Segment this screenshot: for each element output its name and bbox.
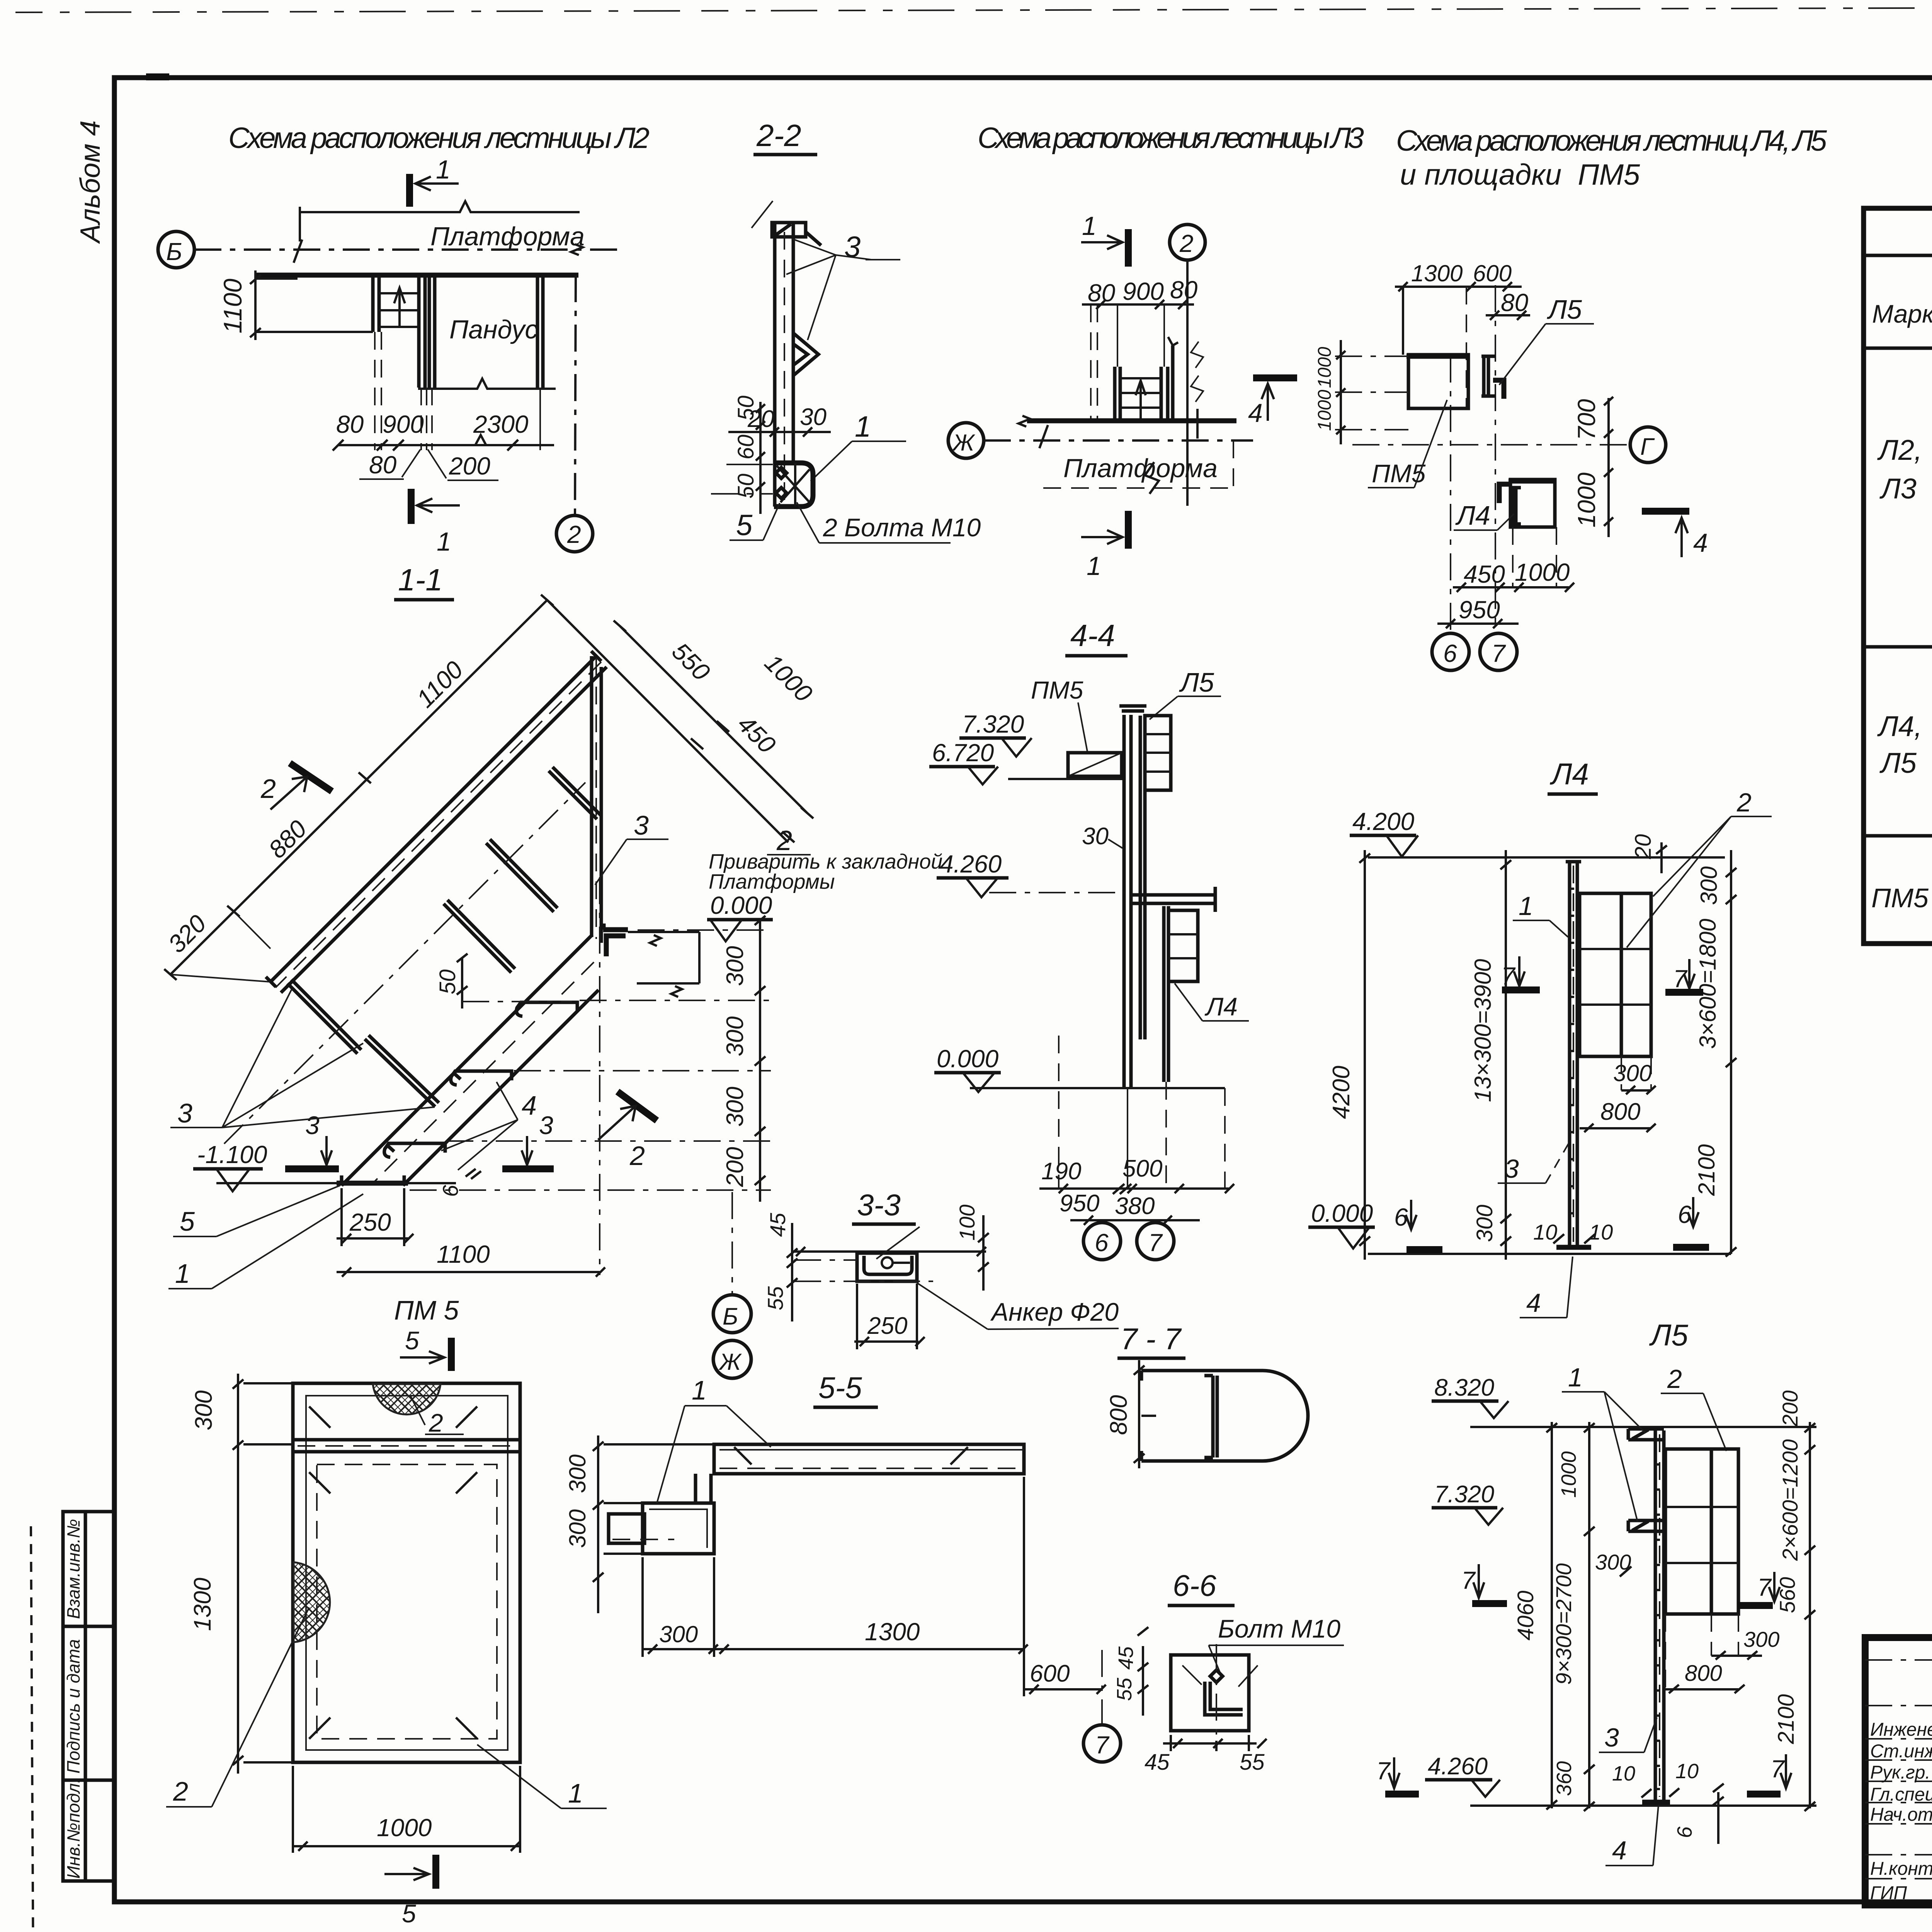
top extension line	[791, 1247, 986, 1256]
top level line	[1368, 856, 1725, 859]
svg-text:4: 4	[1693, 528, 1708, 558]
svg-text:Платформа: Платформа	[430, 222, 585, 251]
svg-text:7.320: 7.320	[1434, 1481, 1494, 1508]
svg-text:300: 300	[1472, 1205, 1497, 1242]
svg-text:1: 1	[175, 1259, 190, 1289]
svg-text:ПМ5: ПМ5	[1372, 459, 1426, 488]
svg-text:Л4,: Л4,	[1877, 710, 1922, 742]
post center dashed	[784, 232, 785, 500]
title block outer	[1865, 1638, 1932, 1905]
frame top tick mark	[146, 73, 169, 80]
svg-text:2: 2	[173, 1776, 188, 1806]
svg-text:Гл.спец.: Гл.спец.	[1870, 1784, 1932, 1805]
svg-text:0.000: 0.000	[1311, 1199, 1373, 1227]
svg-text:Ст.инж.: Ст.инж.	[1870, 1741, 1932, 1762]
section marks 3 bottom	[321, 1136, 332, 1165]
svg-text:13×300=3900: 13×300=3900	[1470, 959, 1496, 1102]
post	[1568, 862, 1571, 1246]
axis 2 leader	[575, 275, 576, 515]
svg-text:Л5: Л5	[1547, 294, 1582, 325]
svg-text:4.260: 4.260	[940, 850, 1002, 878]
hatch half disc left	[294, 1562, 330, 1642]
svg-text:4.260: 4.260	[1428, 1753, 1488, 1780]
svg-text:560: 560	[1775, 1577, 1799, 1613]
svg-text:2: 2	[1736, 788, 1752, 817]
svg-text:700: 700	[1573, 399, 1600, 440]
svg-text:3: 3	[539, 1111, 553, 1139]
svg-text:80: 80	[1170, 276, 1198, 304]
axis 2 vertical line	[1186, 260, 1189, 506]
svg-text:ПМ5: ПМ5	[1031, 676, 1083, 704]
svg-text:950: 950	[1060, 1190, 1099, 1217]
svg-text:1: 1	[855, 410, 871, 443]
rung C	[444, 900, 515, 973]
svg-text:Нач.отд.: Нач.отд.	[1870, 1804, 1932, 1825]
tread marks on post	[1570, 889, 1574, 1213]
tread marks on post	[1655, 1464, 1660, 1789]
svg-text:3: 3	[844, 231, 861, 264]
svg-text:0.000: 0.000	[937, 1045, 999, 1073]
svg-text:Л4: Л4	[1204, 992, 1238, 1021]
leaders to 3	[752, 201, 871, 340]
platform edge lines right	[628, 932, 699, 997]
pandus left rail	[428, 275, 431, 388]
svg-text:3: 3	[1504, 1154, 1519, 1184]
svg-text:1: 1	[692, 1375, 707, 1405]
main post	[1122, 715, 1126, 1088]
post right line	[792, 223, 795, 463]
svg-text:10: 10	[1589, 1220, 1613, 1244]
svg-text:3: 3	[305, 1111, 320, 1139]
axis circle 7	[1480, 633, 1517, 670]
svg-text:7: 7	[1461, 1566, 1476, 1594]
inner dim 13x300	[1500, 850, 1511, 1260]
svg-text:7.320: 7.320	[962, 710, 1024, 738]
svg-text:Б: Б	[723, 1303, 738, 1330]
svg-text:7: 7	[1148, 1229, 1163, 1257]
svg-text:4200: 4200	[1328, 1066, 1355, 1119]
bottom channel box	[774, 463, 813, 507]
axis Г dash-dot	[1352, 444, 1630, 446]
bracket second	[1628, 1520, 1664, 1531]
PM5 bracket box	[1068, 753, 1122, 776]
svg-text:Платформы: Платформы	[709, 870, 835, 893]
connector verticals	[694, 1474, 697, 1503]
svg-text:Л4: Л4	[1455, 500, 1490, 531]
svg-text:7: 7	[1492, 639, 1506, 667]
svg-text:8.320: 8.320	[1434, 1374, 1494, 1401]
svg-text:60: 60	[733, 435, 759, 460]
baseplate	[1556, 1245, 1591, 1250]
svg-text:1300: 1300	[865, 1618, 920, 1646]
axis circle 7	[1083, 1725, 1121, 1762]
svg-text:55: 55	[1113, 1677, 1136, 1701]
svg-text:6: 6	[1673, 1826, 1696, 1838]
section mark 1 bottom	[408, 489, 415, 524]
extension dash-dot levels	[638, 929, 771, 931]
group divider Л2Л3/Л4Л5	[1864, 645, 1932, 649]
side verticals with break	[1171, 345, 1175, 421]
svg-text:900: 900	[1122, 277, 1164, 305]
svg-text:5: 5	[405, 1326, 419, 1355]
L4 rail grid	[1168, 910, 1198, 981]
pandus bottom line with break	[418, 379, 556, 389]
svg-text:3: 3	[177, 1098, 192, 1128]
extension dashed	[1090, 304, 1092, 419]
left dim 4200	[1359, 850, 1370, 1260]
svg-text:250: 250	[349, 1208, 391, 1236]
section mark 5 bottom	[384, 1868, 429, 1880]
svg-text:1300: 1300	[1411, 260, 1463, 286]
svg-text:1000: 1000	[377, 1814, 432, 1842]
axis Ж dash-dot	[984, 439, 1253, 442]
bracket top	[1628, 1429, 1664, 1440]
tread channel T2	[451, 1071, 512, 1085]
extension dash-dot left	[1335, 355, 1408, 357]
right end tick	[1196, 409, 1199, 439]
rung stub detail	[793, 333, 818, 376]
axis 2 circle	[1170, 224, 1205, 260]
svg-text:Л2,: Л2,	[1877, 434, 1922, 466]
axis circle 6	[1083, 1223, 1121, 1260]
svg-text:80: 80	[369, 451, 397, 479]
svg-text:7: 7	[1095, 1731, 1110, 1759]
svg-text:4: 4	[1248, 398, 1263, 428]
svg-text:Л5: Л5	[1179, 667, 1214, 697]
svg-text:45: 45	[1145, 1750, 1170, 1775]
svg-text:360: 360	[1553, 1761, 1576, 1796]
svg-text:Ж: Ж	[718, 1349, 742, 1375]
svg-text:1000: 1000	[1557, 1451, 1580, 1498]
svg-text:1: 1	[1568, 1363, 1583, 1392]
platform top edge	[1027, 418, 1236, 423]
ground line	[970, 1087, 1225, 1089]
svg-text:380: 380	[1115, 1193, 1155, 1219]
axis 2 circle	[556, 515, 593, 552]
svg-text:2: 2	[260, 774, 276, 804]
svg-text:4-4: 4-4	[1070, 618, 1115, 653]
svg-text:300: 300	[565, 1509, 590, 1548]
svg-text:1-1: 1-1	[398, 563, 443, 597]
svg-text:300: 300	[722, 1087, 748, 1126]
axis 7 dash-dot vertical	[1495, 285, 1496, 631]
corner weld ticks	[309, 1406, 477, 1739]
right post	[590, 656, 594, 937]
plate	[1171, 1655, 1249, 1731]
post	[1654, 1430, 1657, 1801]
svg-text:4: 4	[522, 1090, 537, 1121]
ladder up arrow	[394, 288, 405, 327]
rung E	[549, 767, 601, 819]
extension lines	[1402, 287, 1404, 355]
svg-text:950: 950	[1459, 596, 1500, 624]
svg-text:7: 7	[1501, 962, 1516, 990]
svg-text:5: 5	[736, 509, 753, 542]
break mark on axis	[294, 240, 583, 263]
svg-text:1100: 1100	[218, 279, 247, 333]
svg-text:Схема расположения лестницы Л3: Схема расположения лестницы Л3	[978, 122, 1364, 155]
svg-text:Альбом 4: Альбом 4	[75, 121, 106, 244]
svg-text:2: 2	[629, 1141, 645, 1171]
section mark 2 upper	[290, 763, 332, 791]
dim 1100 vertical	[254, 270, 257, 340]
svg-text:ПМ 5: ПМ 5	[394, 1295, 459, 1325]
svg-text:3: 3	[1604, 1723, 1619, 1752]
break zigzags	[1191, 342, 1203, 402]
ladder right rail	[417, 275, 421, 388]
svg-text:300: 300	[1613, 1060, 1652, 1086]
svg-text:1: 1	[436, 155, 451, 184]
rail grid	[1580, 893, 1651, 1056]
channel profile inside	[864, 1256, 912, 1274]
svg-text:6.720: 6.720	[932, 739, 994, 767]
dash-dot lines	[794, 1259, 857, 1261]
small box left	[643, 1503, 714, 1554]
post center dash	[1573, 866, 1574, 1242]
axis leader to circle B	[731, 1192, 733, 1294]
beam at 4.260	[1131, 887, 1215, 912]
section mark 4 right	[1253, 374, 1297, 381]
svg-text:2 Болта М10: 2 Болта М10	[823, 513, 981, 542]
svg-text:2100: 2100	[1694, 1144, 1719, 1196]
svg-text:55: 55	[763, 1286, 787, 1310]
svg-text:800: 800	[1685, 1661, 1722, 1686]
channel cross	[777, 463, 810, 507]
rungs	[1120, 377, 1161, 379]
svg-text:1000: 1000	[1573, 472, 1600, 527]
bolts diamonds	[776, 468, 787, 498]
svg-text:Приварить к закладной: Приварить к закладной	[709, 850, 942, 873]
left break mark	[1019, 416, 1048, 448]
paper top perforation dashed line	[15, 6, 1932, 12]
svg-text:250: 250	[867, 1313, 907, 1339]
bottom level line	[1470, 1804, 1816, 1807]
section mark 4	[1642, 508, 1689, 515]
axis Б circle	[158, 231, 194, 268]
top rail member	[293, 1438, 520, 1442]
dim diagonal extensions	[170, 911, 270, 982]
table title row line	[1864, 254, 1932, 257]
svg-text:2: 2	[1179, 230, 1194, 257]
svg-text:6-6: 6-6	[1173, 1568, 1216, 1602]
svg-text:300: 300	[1696, 866, 1722, 905]
svg-text:2: 2	[1667, 1364, 1682, 1394]
ground line	[1368, 1253, 1731, 1255]
svg-text:30: 30	[1082, 823, 1109, 850]
svg-text:Болт М10: Болт М10	[1218, 1614, 1340, 1643]
svg-text:2-2: 2-2	[756, 118, 801, 153]
svg-text:Рук.гр.: Рук.гр.	[1870, 1762, 1930, 1783]
foot plate	[337, 1181, 408, 1186]
svg-text:500: 500	[1122, 1155, 1162, 1182]
top level line	[1470, 1426, 1816, 1428]
right dim chain	[1726, 850, 1736, 1257]
svg-text:50: 50	[435, 969, 460, 995]
svg-text:Л5: Л5	[1649, 1318, 1688, 1352]
rung A	[287, 980, 361, 1054]
hatch half disc top	[373, 1384, 440, 1415]
channel body	[857, 1253, 917, 1281]
ladder left rail	[371, 275, 375, 332]
L5 cap top	[1119, 706, 1146, 711]
post top cap	[772, 223, 806, 237]
svg-text:6: 6	[1443, 639, 1457, 667]
svg-text:1: 1	[1082, 211, 1097, 241]
axis circle 6	[1432, 633, 1469, 670]
axis Б dash-dot line	[194, 248, 617, 251]
table outer border	[1864, 208, 1932, 944]
svg-text:1100: 1100	[437, 1240, 490, 1268]
svg-text:300: 300	[722, 946, 748, 986]
svg-text:20: 20	[1631, 834, 1656, 860]
svg-text:Б: Б	[166, 238, 182, 265]
svg-text:2100: 2100	[1774, 1694, 1799, 1744]
svg-text:5: 5	[180, 1206, 195, 1236]
svg-text:3×600=1800: 3×600=1800	[1695, 918, 1721, 1049]
stadium outline	[1141, 1371, 1308, 1461]
ladder rungs	[379, 292, 419, 294]
dim diagonal 550 1000 450	[547, 600, 788, 842]
L4 beam symbol	[1511, 488, 1521, 524]
axis 7 dash to circle	[1101, 1650, 1103, 1724]
svg-text:3-3: 3-3	[857, 1188, 901, 1222]
L5 ladder rail	[1139, 716, 1142, 1039]
svg-text:ПМ5: ПМ5	[1871, 883, 1929, 913]
PM5 rect	[1408, 355, 1468, 408]
svg-text:Л4: Л4	[1549, 757, 1589, 791]
header bottom line	[1864, 347, 1932, 350]
L4 rail	[1162, 906, 1166, 1082]
pandus right rail	[536, 275, 539, 388]
rail extension thin up	[1117, 304, 1118, 367]
extension lines at channel	[726, 464, 773, 465]
ladder left rail	[1113, 367, 1117, 421]
ground line	[216, 1182, 456, 1184]
plan inner rect	[306, 1396, 508, 1750]
svg-text:100: 100	[955, 1204, 979, 1240]
long band	[714, 1444, 1024, 1474]
svg-text:30: 30	[800, 404, 827, 430]
svg-text:0.000: 0.000	[710, 891, 772, 919]
svg-text:5: 5	[402, 1899, 416, 1928]
post left line	[773, 223, 777, 507]
weld 6 dim	[1717, 1792, 1719, 1844]
band weld ticks	[734, 1447, 968, 1464]
svg-text:Схема расположения лестницы Л: Схема расположения лестницы Л2	[228, 122, 650, 155]
left dim 1000 / 9x300 / 360	[1584, 1422, 1595, 1811]
leaders	[1182, 1665, 1258, 1687]
svg-text:1: 1	[568, 1778, 583, 1808]
svg-text:Подпись и дата: Подпись и дата	[63, 1639, 83, 1774]
svg-text:1: 1	[1087, 551, 1101, 581]
svg-text:2: 2	[776, 825, 792, 856]
svg-text:200: 200	[722, 1147, 748, 1187]
svg-text:1300: 1300	[189, 1578, 216, 1631]
support angle top right	[603, 923, 628, 956]
L4 rect	[1510, 480, 1555, 527]
axis Ж circle	[948, 423, 984, 458]
inner plate	[1204, 1376, 1217, 1458]
svg-text:300: 300	[659, 1621, 698, 1647]
leader from title	[876, 1227, 920, 1259]
inner dashed contour	[317, 1464, 497, 1739]
tread channel T1	[384, 1143, 445, 1157]
svg-text:300: 300	[1743, 1627, 1779, 1651]
svg-text:7: 7	[1376, 1757, 1391, 1785]
anchor circle	[882, 1257, 893, 1268]
dashed extensions down	[1058, 1036, 1060, 1189]
platform top line with breaks	[300, 201, 580, 212]
svg-text:300: 300	[722, 1016, 748, 1056]
svg-text:4: 4	[1612, 1836, 1627, 1865]
tread channel T3	[517, 1002, 577, 1016]
axis Г circle	[1630, 427, 1666, 463]
svg-text:1000: 1000	[1315, 389, 1335, 431]
ladder right rail	[1160, 367, 1163, 421]
axis line right	[599, 877, 600, 1275]
plan outer rect	[293, 1383, 520, 1762]
svg-text:600: 600	[1030, 1660, 1070, 1687]
svg-text:50: 50	[733, 474, 759, 499]
svg-text:4.200: 4.200	[1352, 808, 1415, 835]
dim diagonal 320 880 1100	[170, 600, 547, 975]
dashed extensions L4	[1512, 527, 1514, 587]
axis circle Zh	[713, 1340, 751, 1378]
svg-text:55: 55	[1240, 1750, 1265, 1775]
svg-text:80: 80	[336, 410, 364, 438]
svg-text:7 - 7: 7 - 7	[1121, 1322, 1182, 1356]
rung D	[486, 839, 558, 912]
6.720 line	[1008, 778, 1122, 780]
svg-text:1: 1	[1519, 891, 1533, 921]
rung B	[365, 1035, 439, 1107]
svg-text:300: 300	[565, 1454, 590, 1493]
dim chain 300x3+200 right	[755, 916, 765, 1202]
svg-text:200: 200	[449, 452, 490, 480]
svg-text:2: 2	[429, 1408, 443, 1437]
weld tick top	[806, 232, 821, 245]
svg-text:5-5: 5-5	[818, 1371, 862, 1405]
svg-text:1: 1	[437, 527, 451, 556]
svg-text:ГИП: ГИП	[1870, 1883, 1907, 1903]
svg-text:6: 6	[1095, 1229, 1109, 1257]
L5 beam symbol	[1481, 356, 1495, 396]
section mark 1 top	[406, 174, 413, 207]
svg-text:10: 10	[1675, 1760, 1699, 1783]
svg-text:4060: 4060	[1513, 1590, 1538, 1640]
svg-text:Взам.инв.№: Взам.инв.№	[63, 1519, 83, 1619]
svg-text:Инв.№подл.: Инв.№подл.	[63, 1778, 83, 1879]
svg-text:Л3: Л3	[1879, 473, 1917, 505]
angle inside	[1205, 1682, 1243, 1715]
svg-text:2: 2	[567, 520, 581, 548]
dashed contour below	[1043, 487, 1233, 489]
stub left	[609, 1514, 645, 1543]
svg-text:200: 200	[1778, 1390, 1802, 1427]
rail grid	[1665, 1449, 1738, 1614]
svg-text:Г: Г	[1640, 434, 1655, 460]
svg-text:10: 10	[1612, 1762, 1635, 1785]
extension dashed lines down	[374, 332, 376, 450]
section mark 2 lower	[617, 1092, 657, 1121]
svg-text:9×300=2700: 9×300=2700	[1551, 1563, 1576, 1685]
svg-text:10: 10	[1533, 1220, 1557, 1244]
svg-text:450: 450	[1464, 560, 1505, 588]
axis circle 7	[1137, 1223, 1174, 1260]
axis circle B	[713, 1295, 751, 1333]
svg-text:2×600=1200: 2×600=1200	[1778, 1439, 1802, 1561]
construction dash-dot diagonal	[224, 782, 585, 1144]
